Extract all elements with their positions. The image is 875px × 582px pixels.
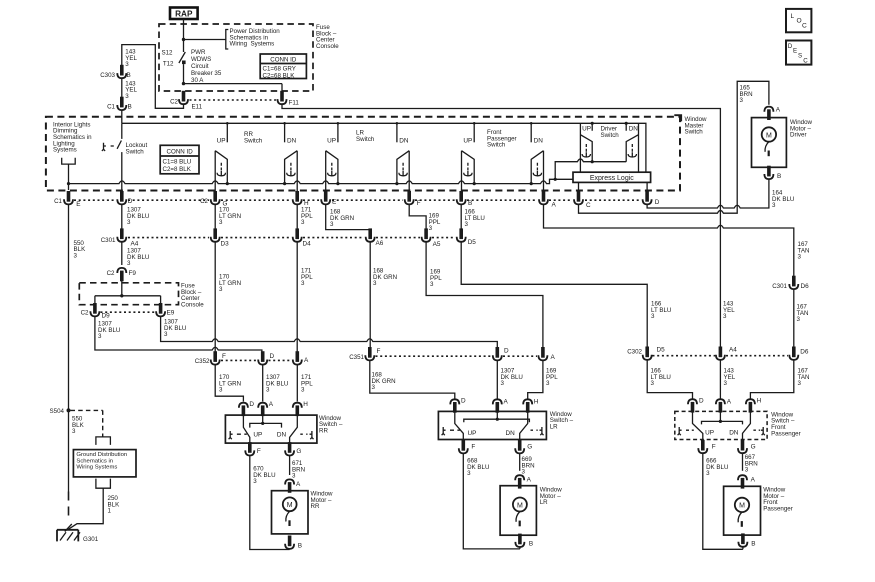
svg-text:3: 3	[301, 387, 305, 394]
svg-text:CONN ID: CONN ID	[167, 149, 194, 156]
svg-text:3: 3	[372, 384, 376, 391]
svg-text:D: D	[655, 199, 660, 206]
svg-text:A: A	[527, 477, 532, 484]
svg-text:M: M	[287, 502, 293, 509]
svg-text:A4: A4	[729, 347, 737, 354]
svg-text:3: 3	[125, 61, 129, 68]
svg-text:D: D	[128, 198, 133, 205]
svg-text:A6: A6	[376, 240, 384, 247]
svg-text:Passenger: Passenger	[771, 430, 801, 437]
svg-text:Passenger: Passenger	[763, 505, 793, 512]
svg-text:3: 3	[724, 380, 728, 387]
svg-text:H: H	[534, 399, 539, 406]
svg-text:RAP: RAP	[175, 9, 193, 18]
svg-text:Circuit: Circuit	[191, 63, 209, 70]
svg-text:3: 3	[430, 281, 434, 288]
svg-text:3: 3	[522, 469, 526, 476]
svg-text:B: B	[298, 543, 302, 550]
svg-text:DN: DN	[506, 430, 516, 437]
svg-text:O: O	[797, 17, 802, 24]
svg-text:3: 3	[164, 331, 168, 338]
svg-text:T12: T12	[163, 61, 174, 68]
svg-text:Wiring Systems: Wiring Systems	[230, 41, 275, 48]
svg-text:M: M	[517, 502, 523, 509]
svg-text:A4: A4	[131, 240, 139, 247]
svg-text:3: 3	[546, 380, 550, 387]
svg-text:C: C	[586, 202, 591, 209]
svg-text:A: A	[296, 481, 301, 488]
svg-text:Schematics in: Schematics in	[76, 458, 113, 464]
svg-text:LR: LR	[550, 424, 558, 431]
svg-text:C: C	[803, 57, 808, 64]
svg-text:B: B	[468, 200, 472, 207]
svg-text:3: 3	[745, 467, 749, 474]
svg-text:E: E	[793, 48, 797, 55]
svg-text:S: S	[798, 53, 802, 60]
svg-text:UP: UP	[705, 430, 714, 437]
svg-text:3: 3	[219, 219, 223, 226]
svg-text:D: D	[249, 401, 254, 408]
svg-text:Switch: Switch	[356, 136, 375, 143]
svg-text:3: 3	[219, 286, 223, 293]
svg-text:UP: UP	[468, 430, 477, 437]
svg-text:C1=8 BLU: C1=8 BLU	[163, 159, 192, 166]
svg-text:UP: UP	[327, 138, 336, 145]
svg-text:C1: C1	[54, 198, 62, 205]
svg-text:D4: D4	[303, 240, 312, 247]
svg-text:DK GRN: DK GRN	[373, 274, 397, 281]
svg-text:3: 3	[467, 470, 471, 477]
svg-text:F11: F11	[289, 99, 300, 106]
svg-text:D6: D6	[800, 349, 809, 356]
svg-text:3: 3	[253, 478, 257, 485]
svg-text:L: L	[791, 13, 795, 20]
svg-text:3: 3	[706, 470, 710, 477]
svg-text:A: A	[751, 477, 756, 484]
svg-text:D: D	[270, 353, 275, 360]
svg-text:DN: DN	[287, 138, 297, 145]
svg-text:CONN ID: CONN ID	[270, 56, 297, 63]
svg-text:3: 3	[797, 316, 801, 323]
svg-text:B: B	[777, 173, 781, 180]
svg-text:M: M	[739, 503, 745, 510]
svg-text:F: F	[417, 200, 421, 207]
svg-text:C301: C301	[772, 283, 787, 290]
svg-text:G: G	[296, 448, 301, 455]
svg-text:UP: UP	[217, 138, 226, 145]
svg-text:3: 3	[740, 97, 744, 104]
svg-text:B: B	[128, 104, 132, 111]
svg-text:A5: A5	[433, 241, 441, 248]
svg-text:3: 3	[429, 225, 433, 232]
svg-text:Driver: Driver	[790, 132, 807, 139]
svg-text:M: M	[766, 132, 772, 139]
svg-text:3: 3	[798, 380, 802, 387]
svg-text:Express Logic: Express Logic	[590, 175, 634, 182]
svg-text:E: E	[76, 201, 80, 208]
svg-text:C2=8 BLK: C2=8 BLK	[163, 166, 192, 173]
svg-text:3: 3	[330, 221, 334, 228]
svg-text:D5: D5	[468, 239, 477, 246]
svg-text:C2: C2	[200, 198, 208, 205]
svg-text:C2: C2	[107, 270, 115, 277]
svg-text:E11: E11	[192, 103, 203, 110]
svg-text:S504: S504	[50, 408, 65, 415]
svg-text:3: 3	[292, 473, 296, 480]
svg-text:3: 3	[74, 252, 78, 259]
svg-text:C303: C303	[100, 72, 115, 79]
svg-text:Switch: Switch	[487, 142, 506, 149]
svg-text:3: 3	[651, 313, 655, 320]
svg-text:LR: LR	[540, 499, 548, 506]
svg-text:3: 3	[301, 280, 305, 287]
svg-text:RR: RR	[319, 428, 328, 435]
svg-text:Switch: Switch	[601, 132, 620, 139]
svg-text:WDWS: WDWS	[191, 56, 211, 63]
svg-text:S12: S12	[161, 50, 173, 57]
svg-text:DN: DN	[629, 126, 639, 133]
svg-text:DN: DN	[534, 138, 544, 145]
svg-text:A: A	[727, 398, 732, 405]
svg-text:B: B	[529, 541, 533, 548]
svg-text:F: F	[377, 348, 381, 355]
svg-text:3: 3	[465, 221, 469, 228]
svg-text:F: F	[471, 444, 475, 451]
svg-text:Switch: Switch	[126, 148, 145, 155]
svg-text:F9: F9	[129, 270, 137, 277]
svg-text:Ground Distribution: Ground Distribution	[76, 452, 127, 458]
svg-text:3: 3	[125, 93, 129, 100]
svg-text:C2: C2	[81, 310, 89, 317]
svg-text:3: 3	[266, 387, 270, 394]
svg-text:3: 3	[98, 333, 102, 340]
svg-text:Console: Console	[316, 43, 339, 50]
svg-text:C2: C2	[170, 98, 178, 105]
svg-text:Switch: Switch	[685, 129, 704, 136]
svg-text:A: A	[269, 401, 274, 408]
svg-text:D5: D5	[657, 347, 666, 354]
svg-text:D9: D9	[102, 313, 111, 320]
svg-text:DK GRN: DK GRN	[330, 215, 354, 222]
svg-text:A: A	[552, 201, 557, 208]
svg-text:3: 3	[373, 280, 377, 287]
svg-text:DN: DN	[399, 138, 409, 145]
svg-text:C2=68 BLK: C2=68 BLK	[263, 72, 296, 79]
svg-text:H: H	[303, 401, 308, 408]
svg-text:F: F	[712, 444, 716, 451]
svg-text:H: H	[757, 397, 762, 404]
svg-text:F: F	[222, 353, 226, 360]
svg-text:DN: DN	[277, 432, 287, 439]
svg-text:UP: UP	[582, 126, 591, 133]
svg-text:3: 3	[772, 202, 776, 209]
svg-text:Wiring Systems: Wiring Systems	[76, 465, 117, 471]
svg-text:A: A	[304, 357, 309, 364]
svg-text:RR: RR	[311, 503, 320, 510]
svg-text:3: 3	[72, 428, 76, 435]
svg-text:PWR: PWR	[191, 49, 206, 56]
svg-text:3: 3	[127, 260, 131, 267]
svg-text:3: 3	[127, 219, 131, 226]
svg-text:3: 3	[651, 380, 655, 387]
svg-text:B: B	[751, 540, 755, 547]
svg-text:C302: C302	[627, 349, 642, 356]
svg-text:3: 3	[301, 219, 305, 226]
svg-text:B: B	[127, 72, 131, 79]
svg-text:C352: C352	[195, 358, 210, 365]
svg-text:DK GRN: DK GRN	[372, 378, 396, 385]
svg-text:C: C	[802, 23, 807, 30]
svg-text:3: 3	[219, 387, 223, 394]
svg-text:A: A	[504, 399, 509, 406]
svg-text:1: 1	[108, 508, 112, 515]
svg-text:G: G	[751, 444, 756, 451]
svg-text:Switch: Switch	[244, 137, 263, 144]
svg-text:E: E	[332, 198, 336, 205]
svg-text:3: 3	[501, 380, 505, 387]
svg-text:D: D	[461, 398, 466, 405]
svg-text:E9: E9	[167, 310, 175, 317]
svg-text:Breaker 35: Breaker 35	[191, 70, 222, 77]
svg-text:D6: D6	[801, 283, 810, 290]
svg-text:C351: C351	[349, 354, 364, 361]
svg-text:3: 3	[723, 313, 727, 320]
svg-text:Console: Console	[181, 301, 204, 308]
svg-text:C301: C301	[101, 237, 116, 244]
svg-text:D: D	[504, 348, 509, 355]
svg-text:D3: D3	[221, 240, 230, 247]
svg-text:A: A	[551, 354, 556, 361]
svg-text:UP: UP	[253, 432, 262, 439]
svg-text:G: G	[527, 444, 532, 451]
svg-text:A: A	[776, 106, 781, 113]
svg-text:3: 3	[798, 254, 802, 261]
svg-text:UP: UP	[463, 138, 472, 145]
svg-text:G301: G301	[83, 536, 99, 543]
svg-text:C1: C1	[107, 104, 115, 111]
svg-text:Systems: Systems	[53, 147, 77, 154]
svg-text:F: F	[257, 448, 261, 455]
svg-text:DN: DN	[729, 430, 739, 437]
svg-text:D: D	[699, 397, 704, 404]
